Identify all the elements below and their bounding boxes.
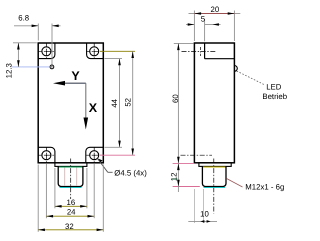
pocket bottom-right: [86, 147, 104, 163]
dim 20: [189, 5, 241, 41]
dim 6.8: [14, 14, 61, 65]
LED bump: [234, 66, 237, 72]
dim 52: [100, 51, 135, 155]
side view body outline: [194, 43, 234, 163]
dim 60: [171, 43, 194, 163]
M12 leader: [226, 178, 242, 187]
svg-text:5: 5: [201, 15, 206, 24]
hole bottom-right: [86, 147, 102, 163]
dim 24: [46, 164, 94, 218]
side centerline top holes: [182, 50, 216, 52]
side connector: [202, 166, 226, 186]
cyan line under side connector: [204, 187, 226, 189]
svg-text:44: 44: [110, 98, 119, 107]
side hole depth mark: [200, 47, 202, 56]
svg-text:20: 20: [211, 5, 220, 14]
svg-text:12: 12: [170, 173, 179, 182]
svg-text:10: 10: [200, 210, 209, 219]
dim 32: [38, 165, 103, 232]
green line under flange: [58, 166, 83, 168]
side connector flange: [199, 163, 231, 167]
dim 12.3: [4, 43, 50, 79]
svg-text:52: 52: [124, 98, 133, 107]
dim 12 side: [170, 163, 200, 192]
hole top-left: [38, 43, 54, 59]
svg-text:LED: LED: [266, 83, 282, 92]
axis X: [84, 83, 98, 129]
side connector centerline: [213, 159, 215, 214]
pocket top-left: [38, 43, 55, 59]
svg-text:Y: Y: [71, 69, 80, 83]
front connector M12: [58, 166, 83, 186]
axis Y: [53, 69, 86, 86]
svg-text:M12x1 - 6g: M12x1 - 6g: [245, 183, 284, 192]
leader dia 4.5: [97, 158, 147, 177]
reference point small circle: [50, 65, 54, 69]
svg-text:Ø4.5 (4x): Ø4.5 (4x): [114, 168, 147, 177]
thread core lines front: [64, 168, 66, 186]
pocket top-right: [87, 43, 104, 59]
hole bottom-left: [38, 147, 54, 163]
svg-text:X: X: [89, 101, 98, 115]
svg-text:16: 16: [67, 198, 76, 207]
svg-text:60: 60: [171, 94, 180, 103]
side step vertical: [204, 43, 206, 59]
svg-text:32: 32: [65, 222, 74, 231]
svg-text:24: 24: [67, 207, 76, 216]
LED leader: [237, 71, 264, 85]
dim 10: [188, 189, 217, 223]
side step bottom: [205, 58, 235, 60]
front view body outline: [38, 43, 103, 163]
front connector centerline: [70, 159, 72, 200]
svg-text:Betrieb: Betrieb: [262, 92, 287, 101]
dim 44: [105, 59, 123, 148]
hole top-right: [86, 43, 102, 59]
cyan line under front connector: [60, 187, 82, 189]
yellow line under side flange: [203, 166, 226, 168]
svg-text:6.8: 6.8: [18, 14, 29, 23]
side centerline bottom holes: [181, 154, 213, 156]
dim 5: [186, 15, 221, 42]
front connector flange: [55, 163, 87, 167]
pocket bottom-left: [38, 147, 55, 163]
svg-text:12.3: 12.3: [4, 63, 13, 78]
dim 16: [55, 168, 87, 208]
